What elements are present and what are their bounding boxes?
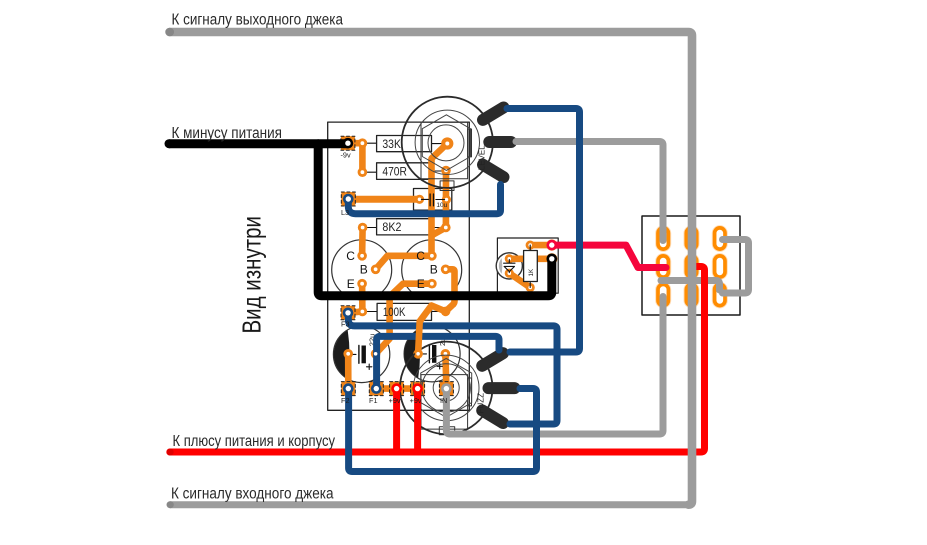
capacitor 10u symbol and label <box>421 194 447 209</box>
wire red plus rail to footswitch <box>170 267 705 453</box>
svg-text:100K: 100K <box>383 307 406 319</box>
LED daughterboard outline <box>497 238 558 293</box>
terminal blue F3 <box>343 308 354 319</box>
wire blue LEVEL lug1 to FUZZ lug1 <box>507 109 580 353</box>
LED D1 body <box>496 253 522 279</box>
trace LED-top to black pad <box>509 255 552 262</box>
wire blue F1 to FUZZ lug1 <box>377 336 499 389</box>
svg-text:К минусу питания: К минусу питания <box>172 125 283 142</box>
terminal crimson LED board <box>547 240 558 251</box>
trace Q2-E to C22u-right <box>376 284 432 354</box>
LEVEL lug 1 <box>483 108 504 120</box>
wire gray input jack rail <box>170 501 690 508</box>
svg-text:33K: 33K <box>382 139 401 151</box>
pad IN <box>439 382 453 396</box>
resistor 8K2 body <box>363 219 446 235</box>
trace C2u2-left to 100K-right (over blue) <box>418 306 446 354</box>
wire gray output jack to footswitch col2 <box>170 32 693 505</box>
svg-text:F1: F1 <box>369 396 378 405</box>
resistor 100K value label <box>383 307 406 319</box>
trace LEVEL-center to Q2-C <box>432 144 448 256</box>
pad F3 <box>341 306 355 320</box>
transistor pin labels <box>346 249 438 291</box>
wire black branch to LED board <box>318 144 552 296</box>
resistor 1K body <box>524 245 538 287</box>
trace LED-bottom to R-bottom <box>509 273 530 287</box>
trace to 8K2-right <box>432 228 446 236</box>
trace F3 link <box>348 312 362 313</box>
resistor 470R body <box>362 163 446 180</box>
resistor 100K body <box>362 303 445 320</box>
wire crimson LED board to footswitch <box>552 245 666 267</box>
trace C2u2-right to IN <box>445 354 446 389</box>
wire blue F3 to FUZZ lug3 <box>348 313 557 424</box>
terminal blue F2 <box>343 383 354 394</box>
terminal blue L3 <box>343 194 354 205</box>
wire black minus supply <box>169 139 348 148</box>
terminal gray IN <box>441 383 452 394</box>
svg-text:IN: IN <box>440 396 447 405</box>
LEVEL lug 3 <box>483 165 504 177</box>
svg-text:-9v: -9v <box>341 151 351 160</box>
trace Q1-B to Q2-C <box>376 256 432 269</box>
svg-text:E: E <box>347 277 355 291</box>
terminal red +9v a <box>391 383 402 394</box>
svg-text:+9v: +9v <box>410 396 422 405</box>
wire gray jumper row3 footswitch <box>661 281 720 291</box>
capacitor C5 2u2 body <box>404 326 460 382</box>
trace LEVEL-2 to 8K2-right <box>443 171 450 228</box>
pad -9v <box>341 136 355 150</box>
svg-text:F2: F2 <box>341 396 350 405</box>
pad +9v b <box>411 382 425 396</box>
LEVEL lug 2 <box>489 136 511 148</box>
LED board pads <box>505 240 558 293</box>
svg-text:1K: 1K <box>528 268 535 276</box>
svg-text:К сигналу входного джека: К сигналу входного джека <box>171 486 334 503</box>
terminal red +9v b <box>412 383 423 394</box>
svg-text:Вид изнутри: Вид изнутри <box>237 216 267 334</box>
svg-text:C: C <box>346 249 355 263</box>
footswitch 3PDT outline <box>642 216 740 315</box>
wire blue L3 to LEVEL lug3 <box>348 185 500 214</box>
svg-text:К сигналу выходного джека: К сигналу выходного джека <box>172 11 344 28</box>
svg-text:8K2: 8K2 <box>382 222 401 234</box>
resistor 33K body <box>362 136 447 152</box>
transistor Q1 outline <box>332 240 392 300</box>
FUZZ lug 2 <box>489 382 515 394</box>
wire red +9v pad a <box>393 389 400 452</box>
PCB board outline <box>328 122 470 410</box>
potentiometer LEVEL <box>402 97 511 191</box>
svg-text:L3: L3 <box>341 208 349 217</box>
trace Q1-E down <box>359 284 366 312</box>
LED symbol <box>504 260 515 273</box>
wire gray IN pad to footswitch col1 <box>446 297 663 435</box>
terminal black LED board <box>547 253 558 264</box>
svg-text:E: E <box>417 277 425 291</box>
footswitch lugs 3x3 <box>658 228 725 306</box>
capacitor plus marks <box>367 364 443 370</box>
svg-text:К плюсу питания и корпусу: К плюсу питания и корпусу <box>173 433 336 450</box>
terminal black -9v <box>343 138 354 149</box>
transistor Q2 outline <box>402 240 462 300</box>
traces <box>348 143 455 388</box>
svg-text:10u: 10u <box>436 202 447 209</box>
pad F1 <box>369 382 383 396</box>
trace 33K-left to 470R-left <box>359 143 366 172</box>
wire end caps <box>165 28 174 509</box>
pad holes <box>346 141 449 355</box>
pad F2 <box>341 382 355 396</box>
svg-text:C: C <box>416 249 425 263</box>
svg-text:LEVEL: LEVEL <box>478 145 487 170</box>
trace R-top to red pad <box>530 242 552 249</box>
trace F1 to +9v rail <box>376 385 417 392</box>
wire gray U jumper col3 footswitch <box>723 240 749 294</box>
trace -9v to 33K-left <box>348 140 363 147</box>
svg-text:+9v: +9v <box>389 396 401 405</box>
svg-text:B: B <box>430 263 438 277</box>
pad L3 <box>341 192 355 206</box>
FUZZ lug 1 <box>482 353 503 366</box>
trace C22u-left to F2 <box>345 354 352 389</box>
trace L-pad to 10u-left <box>348 196 419 203</box>
terminal blue F1 <box>371 383 382 394</box>
trace 8K2-left to Q1-C <box>359 228 366 256</box>
svg-text:B: B <box>360 263 368 277</box>
wire gray LEVEL wiper to footswitch col1 <box>516 142 663 241</box>
svg-text:F3: F3 <box>341 319 350 328</box>
wire red +9v pad b <box>414 389 421 452</box>
svg-text:FUZZ: FUZZ <box>476 393 485 414</box>
capacitor 10u body <box>414 189 452 211</box>
wire blue F2 to FUZZ lug2 <box>349 389 537 472</box>
capacitor C4 22u body <box>333 326 389 382</box>
pad +9v a <box>390 382 404 396</box>
potentiometer FUZZ <box>400 342 515 435</box>
trace Q2-B to 100K-right <box>446 269 455 311</box>
square pads <box>341 136 454 395</box>
svg-text:470R: 470R <box>382 166 407 178</box>
round pads <box>343 137 453 358</box>
FUZZ lug 3 <box>482 410 503 423</box>
